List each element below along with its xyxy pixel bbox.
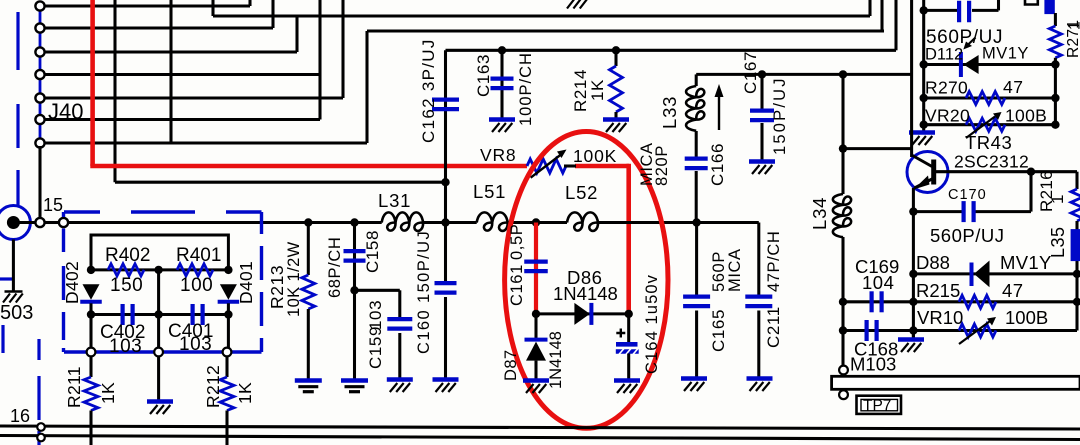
wire middle vertical xyxy=(157,270,160,352)
wire pin3 riser to node wire xyxy=(295,15,298,52)
svg-text:C211: C211 xyxy=(764,306,783,348)
trimmer VR20 arrow xyxy=(966,117,995,139)
wire node riser to top edge xyxy=(894,0,897,50)
ground stub at top edge xyxy=(567,0,574,9)
wire J40 pin6 xyxy=(45,118,321,121)
shield box left dashed xyxy=(62,212,65,352)
connector J40 pin 6 circle xyxy=(35,115,44,124)
wire net B riser to top edge xyxy=(880,0,883,31)
junction VR20 left xyxy=(920,121,928,129)
svg-text:MV1Y: MV1Y xyxy=(982,45,1029,63)
junction R402 left xyxy=(87,266,95,274)
inductor L35 core (blue) xyxy=(1071,229,1080,261)
connector J40 pin 3 circle xyxy=(35,47,44,56)
junction C160/C162 xyxy=(441,218,449,226)
trimmer VR8 arrow xyxy=(531,155,561,178)
capacitor C164 top plate xyxy=(616,342,638,347)
wire L34 upper stem xyxy=(841,149,844,194)
junction C169 left xyxy=(839,298,847,306)
capacitor C164 bottom plate (hatched) xyxy=(616,349,639,354)
wire main bus segment 3 xyxy=(508,221,567,224)
ground under C164 xyxy=(614,378,640,382)
wire top cap left xyxy=(924,9,958,12)
svg-text:R215: R215 xyxy=(916,280,960,301)
diode D88 (varactor MV1Y) xyxy=(970,263,974,287)
capacitor C161 xyxy=(524,260,548,264)
junction D88 left xyxy=(909,270,917,278)
ground under C211 xyxy=(747,376,773,380)
trimmer VR8 zigzag xyxy=(527,159,566,173)
diode D401 xyxy=(220,284,237,300)
transistor TR43 collector lead xyxy=(912,155,932,167)
svg-text:100B: 100B xyxy=(1005,307,1048,328)
wire between pins xyxy=(45,221,60,224)
svg-text:R402: R402 xyxy=(105,245,150,266)
inductor L51 xyxy=(477,212,508,231)
wire R402 row xyxy=(91,268,159,271)
junction R270 left xyxy=(920,94,928,102)
junction D112 right xyxy=(1051,60,1059,68)
capacitor C163 xyxy=(491,76,514,80)
ground under C165 xyxy=(681,376,707,380)
junction R213 top xyxy=(304,218,312,226)
wire C165 stem xyxy=(695,223,698,297)
variable core arrow for L33 xyxy=(718,93,720,130)
junction emitter/C170 xyxy=(909,207,917,215)
junction C161 top xyxy=(532,218,540,226)
capacitor C160 xyxy=(435,281,457,285)
svg-text:100B: 100B xyxy=(1005,106,1047,126)
wire pin2 riser to top edge xyxy=(271,0,274,28)
capacitor C162 xyxy=(432,97,459,101)
shield bottom pin mid xyxy=(154,348,163,357)
svg-text:L52: L52 xyxy=(565,182,598,203)
connector J40 body (blue spine) xyxy=(39,6,42,143)
svg-text:MV1Y: MV1Y xyxy=(1000,252,1052,273)
svg-text:1: 1 xyxy=(1048,194,1067,204)
ground under C158 xyxy=(341,378,368,382)
trimmer VR20 xyxy=(966,118,1005,131)
transistor TR43 emitter lead xyxy=(914,179,933,189)
svg-text:L34: L34 xyxy=(809,197,830,230)
transistor TR43 body circle xyxy=(907,152,948,193)
junction C167 top xyxy=(758,70,766,78)
wire pin1 riser to top edge xyxy=(248,0,251,6)
junction R215 right xyxy=(1073,298,1080,306)
capacitor 560P/UJ (top) xyxy=(957,1,961,23)
svg-text:503: 503 xyxy=(0,302,33,324)
ground under C160 xyxy=(433,377,459,381)
trimmer VR10 arrow xyxy=(959,322,990,345)
junction C165/C166 xyxy=(692,218,700,226)
ground under right bus xyxy=(909,130,935,134)
wire collector riser from top edge xyxy=(910,0,913,157)
svg-text:C161: C161 xyxy=(508,264,526,306)
svg-text:C170: C170 xyxy=(948,187,987,203)
shield box bottom (blue) xyxy=(64,350,262,353)
wire bus corner down to C211 xyxy=(757,223,760,297)
svg-text:MICA: MICA xyxy=(726,248,744,292)
shield dash left edge xyxy=(1,325,4,353)
red wire down to D86/C164 node xyxy=(626,164,631,314)
svg-text:C160 150P/UJ: C160 150P/UJ xyxy=(415,230,433,354)
coax connector 503 outer circle xyxy=(0,206,30,240)
capacitor C164 plus sign xyxy=(616,329,625,338)
junction C401 right xyxy=(224,310,232,318)
wire vertical from top at x115 xyxy=(113,0,116,182)
wire C167 to ground xyxy=(760,123,763,160)
svg-text:1K: 1K xyxy=(235,382,255,404)
svg-text:R212: R212 xyxy=(203,365,223,408)
test point bus bar xyxy=(832,376,1080,389)
svg-text:100: 100 xyxy=(180,275,213,296)
node 16 pin upper xyxy=(37,423,45,431)
connector J40 pin 4 circle xyxy=(35,70,44,79)
wire right edge bus mid xyxy=(1075,221,1078,274)
wire right bus (R270 side) xyxy=(1054,58,1057,125)
ground under D87 xyxy=(523,378,549,382)
wire C402 row xyxy=(91,313,159,316)
ground under C163 xyxy=(489,117,515,121)
capacitor C402 xyxy=(120,304,124,325)
ground middle (under shield box) xyxy=(147,399,173,403)
junction L34 / TR43 collector node xyxy=(839,144,847,152)
ground under C167 xyxy=(749,159,775,163)
varactor adjust arrow D112 xyxy=(966,38,976,47)
junction VR20 right xyxy=(1051,121,1059,129)
junction C163 top xyxy=(498,46,506,54)
svg-text:C162 3P/UJ: C162 3P/UJ xyxy=(419,38,438,143)
wire coax to node 15 xyxy=(13,221,35,224)
wire VR8 right stub xyxy=(564,164,576,167)
shield box top dashed xyxy=(64,210,262,213)
svg-text:VR8: VR8 xyxy=(480,145,516,165)
svg-text:C164 1u50v: C164 1u50v xyxy=(643,274,661,374)
svg-text:2SC2312: 2SC2312 xyxy=(954,152,1029,172)
svg-text:VR10: VR10 xyxy=(917,307,963,328)
wire bottom rail 2 xyxy=(0,436,1080,440)
junction R214 top xyxy=(612,46,620,54)
red highlight ellipse xyxy=(505,132,668,429)
wire C167 stem xyxy=(760,74,763,110)
wire C401 row xyxy=(159,313,229,316)
svg-text:C167: C167 xyxy=(741,51,760,94)
wire top cap riser to top edge xyxy=(997,0,1000,10)
wire C162 string vertical xyxy=(444,50,447,222)
junction x445/y182 xyxy=(441,178,449,186)
wire horizontal y182 to C162 node xyxy=(115,181,446,184)
coax connector center pin xyxy=(7,216,20,229)
wire collector node horizontal xyxy=(843,147,912,150)
resistor R214 xyxy=(610,66,623,112)
wire main bus segment 4 xyxy=(598,221,759,224)
wire J40 pin7 xyxy=(45,141,368,144)
svg-text:C165: C165 xyxy=(709,309,728,352)
wire pin7 riser xyxy=(365,31,368,143)
wire C166 to bus xyxy=(695,171,698,223)
wire D401 leg to shield bottom xyxy=(227,315,230,353)
wire vertical from top at x171 xyxy=(169,0,172,143)
wire J40 pin4 xyxy=(45,73,321,76)
svg-text:D87: D87 xyxy=(502,350,520,381)
wire TR43 base lead xyxy=(936,170,1077,173)
inductor L34 xyxy=(833,194,851,237)
svg-text:R270: R270 xyxy=(925,78,968,98)
red wire VR8 to corner xyxy=(575,164,629,169)
capacitor C158 xyxy=(344,249,366,253)
wire right edge bus lower xyxy=(1075,274,1078,331)
svg-text:TP7: TP7 xyxy=(863,398,891,415)
wire J40 stem down to node 15 xyxy=(38,146,41,223)
svg-text:R401: R401 xyxy=(176,245,221,266)
wire C165 to ground xyxy=(695,311,698,378)
wire VR20 row xyxy=(924,123,1056,126)
inner box top wire xyxy=(91,235,228,270)
wire C159 to ground xyxy=(398,333,401,379)
svg-text:1N4148: 1N4148 xyxy=(547,331,565,389)
svg-text:103: 103 xyxy=(179,334,212,355)
inductor L31 xyxy=(382,212,423,231)
trimmer VR10 xyxy=(959,324,996,337)
svg-text:C158: C158 xyxy=(363,230,382,273)
small hook wire at top edge xyxy=(1025,0,1038,5)
svg-text:47P/CH: 47P/CH xyxy=(765,231,783,292)
ground under R214 xyxy=(603,117,629,121)
svg-text:D401: D401 xyxy=(236,261,256,304)
junction C402/C401 mid xyxy=(154,310,162,318)
capacitor C166 xyxy=(685,157,708,161)
wire right bus vertical xyxy=(922,0,925,132)
wire J40 pin1 xyxy=(45,4,251,7)
wire C164 stem xyxy=(627,314,630,343)
wire D88 row xyxy=(913,272,1077,275)
wire top cap right xyxy=(972,9,999,12)
node 15 pin circle b xyxy=(59,218,68,227)
capacitor C167 xyxy=(750,108,774,112)
wire J40 pin2 xyxy=(45,26,274,29)
junction D86 cathode / C164 top xyxy=(625,310,633,318)
svg-text:100P/CH: 100P/CH xyxy=(517,52,535,126)
junction C168 left xyxy=(839,326,847,334)
svg-text:L31: L31 xyxy=(378,190,411,211)
wire R271 stem xyxy=(1054,13,1057,26)
wire C163 stem xyxy=(500,50,503,118)
capacitor C165 xyxy=(683,295,710,299)
wire R215/C169 row xyxy=(843,300,1077,303)
wire VR10/C168 row xyxy=(843,329,1077,332)
coil core (blue) top right xyxy=(1044,0,1054,14)
diode D402 xyxy=(83,284,100,300)
wire long net B (y31) xyxy=(367,29,884,32)
svg-text:L33: L33 xyxy=(659,96,680,129)
svg-text:820P: 820P xyxy=(653,145,671,186)
diode D87 xyxy=(526,342,546,361)
junction VR10 left xyxy=(909,326,917,334)
red wire vertical from top xyxy=(90,0,95,166)
wire L33 corner stem xyxy=(695,74,698,86)
shield dashed line bottom left xyxy=(37,339,40,445)
junction top cap node xyxy=(920,6,928,14)
resistor R270 xyxy=(966,92,1005,105)
svg-text:15: 15 xyxy=(43,195,63,215)
svg-text:10K 1/2W: 10K 1/2W xyxy=(285,241,303,317)
junction R270 right xyxy=(1051,94,1059,102)
wire J40 pin5 xyxy=(45,96,344,99)
svg-text:L51: L51 xyxy=(473,181,506,202)
inductor L52 xyxy=(567,212,598,231)
ground under emitter bus xyxy=(898,337,924,341)
resistor R211 xyxy=(84,377,98,411)
svg-text:D88: D88 xyxy=(916,252,950,273)
svg-text:150: 150 xyxy=(110,275,143,296)
connector J40 pin 2 circle xyxy=(35,23,44,32)
shield bottom pin right xyxy=(223,348,232,357)
wire L34 node to test point xyxy=(841,302,844,366)
junction C158/C159 xyxy=(350,286,358,294)
wire pin5 riser to top edge xyxy=(341,0,344,98)
svg-text:100K: 100K xyxy=(573,146,617,166)
wire R212 bottom xyxy=(225,411,228,445)
junction C161 bottom / D86 anode xyxy=(532,310,540,318)
wire coax ground stem xyxy=(12,240,15,292)
svg-text:C163: C163 xyxy=(474,54,493,97)
ground under C159 xyxy=(387,377,413,381)
svg-text:1K: 1K xyxy=(588,79,607,101)
shield box right dashed xyxy=(260,212,263,352)
svg-text:R213: R213 xyxy=(267,265,287,309)
wire D402 leg to shield bottom xyxy=(89,315,92,353)
svg-text:1K: 1K xyxy=(98,382,118,404)
wire main bus segment 2 xyxy=(423,221,477,224)
resistor R402 xyxy=(108,264,144,276)
svg-text:TR43: TR43 xyxy=(965,132,1012,153)
wire R213 to ground xyxy=(307,309,310,381)
shield dashed line top left xyxy=(16,12,19,205)
wire pin4/pin6 riser to top edge xyxy=(318,0,321,120)
capacitor C159 xyxy=(387,317,412,321)
svg-text:M103: M103 xyxy=(850,354,896,375)
svg-text:150P/UJ: 150P/UJ xyxy=(771,76,789,155)
wire D86 row xyxy=(536,312,629,315)
wire bottom rail 1 xyxy=(0,426,1080,429)
connector J40 pin 7 circle xyxy=(35,138,44,147)
transistor TR43 base bar xyxy=(931,160,936,185)
svg-text:1: 1 xyxy=(1067,21,1080,30)
resistor R213 xyxy=(302,275,315,309)
junction base/C170 node xyxy=(1027,168,1035,176)
wire R214 stem bottom xyxy=(614,112,617,118)
wire right edge bus corner xyxy=(1075,172,1078,189)
capacitor C170 xyxy=(961,201,965,222)
svg-text:47: 47 xyxy=(1003,77,1023,97)
resistor R401 xyxy=(177,264,213,276)
wire main bus segment 1 xyxy=(68,221,382,224)
svg-text:1N4148: 1N4148 xyxy=(553,283,618,304)
svg-text:R211: R211 xyxy=(64,366,84,408)
resistor R212 xyxy=(220,377,234,411)
resistor R271 xyxy=(1049,26,1061,58)
wire net A riser left to top edge xyxy=(211,0,214,16)
wire L34 to C169 node xyxy=(841,237,844,302)
wire TR43 emitter down xyxy=(912,188,915,341)
red wire horizontal to VR8 xyxy=(90,164,527,169)
ground under R213 xyxy=(295,378,322,382)
wire R211 top xyxy=(89,356,92,377)
junction R215 left xyxy=(909,298,917,306)
node 15 pin circle a xyxy=(35,218,44,227)
wire node C162/C163/R214 (y50) xyxy=(446,49,897,52)
wire C159 branch xyxy=(355,289,400,292)
shield dash horizontal at coax xyxy=(0,277,13,280)
test point circle upper xyxy=(839,366,848,375)
ground at coax xyxy=(5,290,23,293)
wire R214 stem top xyxy=(614,50,617,66)
junction D88 right xyxy=(1073,270,1080,278)
diode D86 xyxy=(574,303,590,325)
wire R270 row xyxy=(924,96,1056,99)
svg-text:C159: C159 xyxy=(366,326,385,369)
wire D112 row xyxy=(924,63,1056,66)
TP7 label box xyxy=(857,396,902,414)
wire net A riser right to top edge xyxy=(868,0,871,16)
svg-text:VR20: VR20 xyxy=(925,106,970,126)
wire L33 to C166 xyxy=(695,131,698,158)
wire R401 row xyxy=(159,268,229,271)
wire C164 to ground xyxy=(627,354,630,381)
connector J40 pin 5 circle xyxy=(35,93,44,102)
wire mid to ground xyxy=(157,356,160,401)
node 16 pin lower xyxy=(37,434,45,442)
wire D402 bottom stub xyxy=(89,303,92,314)
wire D87 to ground xyxy=(534,361,537,380)
svg-text:103: 103 xyxy=(109,336,142,357)
wire R213 stem xyxy=(307,223,310,276)
svg-text:68P/CH: 68P/CH xyxy=(326,237,344,298)
diode D112 (varactor MV1Y) xyxy=(959,52,963,77)
svg-text:C166: C166 xyxy=(708,143,727,186)
junction L34 top xyxy=(839,70,847,78)
capacitor C211 xyxy=(745,295,772,299)
wire emitter bus to ground xyxy=(912,331,915,340)
svg-text:47: 47 xyxy=(1002,280,1024,301)
svg-text:560P/UJ: 560P/UJ xyxy=(930,225,1004,246)
wire L34 stem xyxy=(841,74,844,148)
shield bottom pin left xyxy=(87,348,96,357)
junction R401 right xyxy=(224,266,232,274)
resistor R215 xyxy=(959,295,996,308)
capacitor C168 xyxy=(864,320,868,341)
svg-text:D402: D402 xyxy=(62,261,82,304)
inductor L33 xyxy=(686,86,704,131)
red wire C161 string xyxy=(534,223,538,314)
junction D112 left xyxy=(920,60,928,68)
capacitor C169 xyxy=(869,291,873,312)
wire C158 stem xyxy=(353,223,356,291)
capacitor C401 xyxy=(191,304,195,325)
connector J40 pin 1 circle xyxy=(35,1,44,10)
wire D87 stem xyxy=(534,314,537,341)
wire D401 bottom stub xyxy=(227,303,230,314)
junction C402 left xyxy=(87,310,95,318)
wire C158 to ground xyxy=(353,290,356,380)
wire J40 pin3 xyxy=(45,50,298,53)
wire R211 bottom xyxy=(89,411,92,445)
wire C211 to ground xyxy=(757,311,760,378)
svg-text:D112: D112 xyxy=(925,46,963,64)
test point circle lower xyxy=(839,390,848,399)
resistor R216 xyxy=(1071,189,1080,221)
junction R402/R401 mid xyxy=(154,266,162,274)
